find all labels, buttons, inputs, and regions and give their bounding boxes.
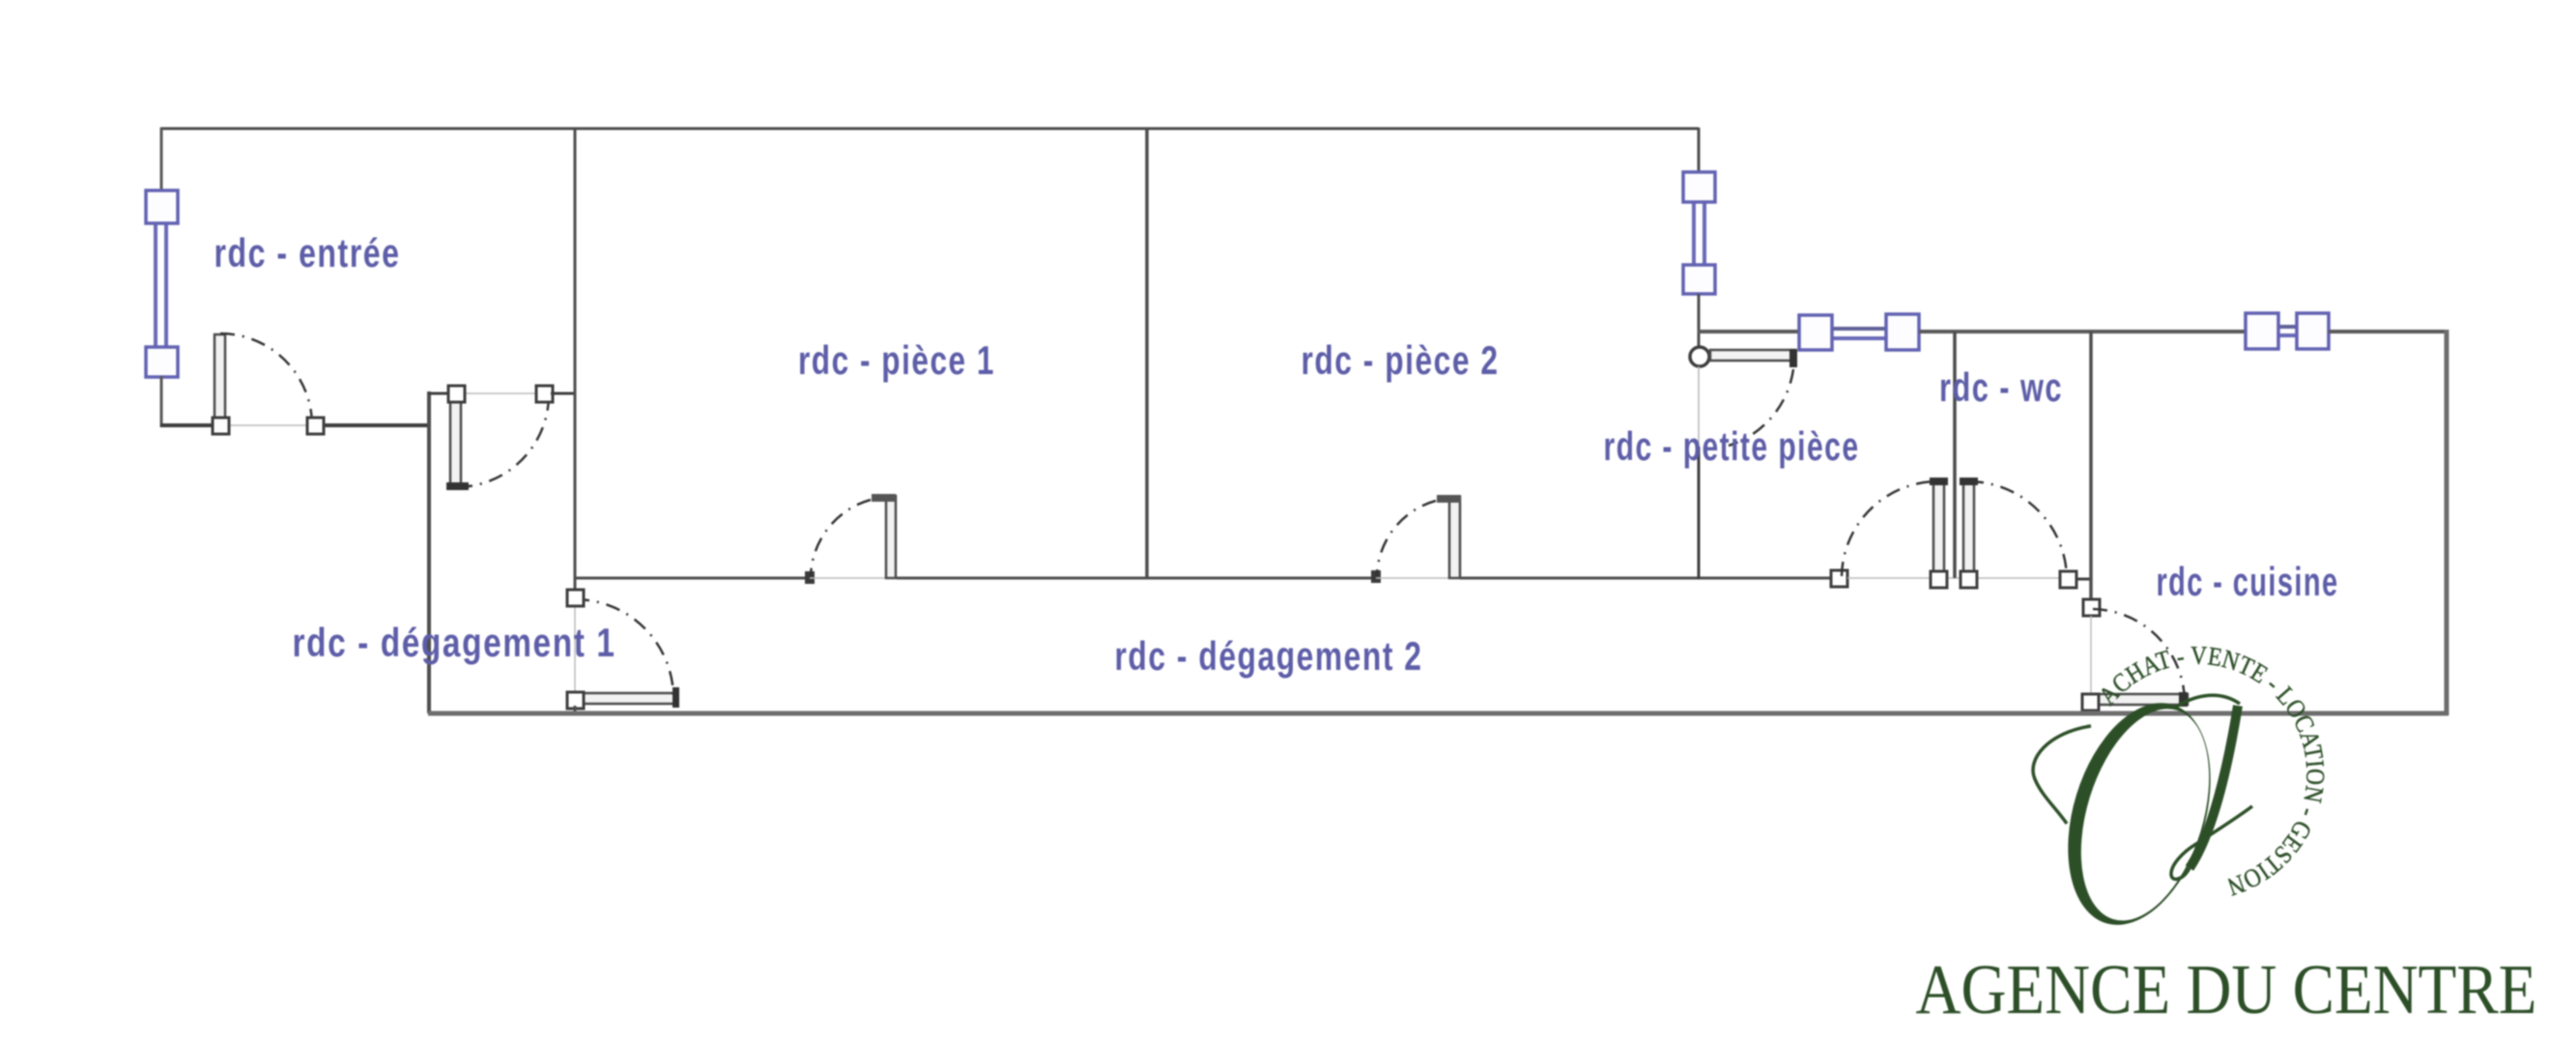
svg-text:rdc - entrée: rdc - entrée bbox=[215, 230, 401, 275]
window W3 square right bbox=[1886, 314, 1919, 350]
window W2 square top bbox=[1683, 172, 1715, 202]
wire wc cuisine top wall segment b bbox=[1919, 330, 2247, 333]
wire right wall bbox=[2445, 330, 2449, 715]
door D7 swing arc bbox=[1842, 481, 1936, 576]
door D2 swing arc bbox=[458, 395, 549, 487]
door D4 swing arc bbox=[811, 500, 871, 576]
window W2 glazing bbox=[1692, 200, 1696, 267]
wire top wall bbox=[160, 128, 1699, 130]
door D9 opening line bbox=[2090, 616, 2092, 693]
door D2 leaf bbox=[450, 396, 461, 485]
wire rooms bottom wall segment a bbox=[574, 577, 806, 580]
wire wc right wall bbox=[2089, 332, 2093, 601]
node D1 hinge bbox=[213, 418, 229, 434]
window W4 square left bbox=[2246, 313, 2278, 349]
door D5 leaf bbox=[1449, 497, 1460, 578]
window W3 square left bbox=[1799, 315, 1832, 350]
logo script glyph ell stem bbox=[2190, 706, 2238, 868]
wire left wall upper segment bbox=[160, 128, 163, 192]
wire rooms bottom wall segment b bbox=[897, 577, 1372, 580]
door D4 leaf bbox=[886, 496, 896, 578]
window W4 square right bbox=[2297, 313, 2329, 349]
svg-text:rdc - cuisine: rdc - cuisine bbox=[2157, 559, 2339, 604]
node D1 latch bbox=[307, 418, 324, 434]
wire degagement1 top wall right bbox=[551, 392, 576, 395]
door D2 opening line bbox=[456, 392, 544, 394]
wire entree bottom wall right bbox=[323, 423, 431, 427]
door D3 leaf bbox=[580, 693, 676, 704]
window W1 glazing bbox=[154, 222, 157, 350]
node D9 hinge bbox=[2082, 694, 2099, 710]
door D8 leaf cap bbox=[1960, 478, 1978, 485]
wire wc cuisine top wall segment c bbox=[2329, 330, 2448, 333]
wire left wall lower segment bbox=[160, 376, 163, 427]
node D4 latch bbox=[805, 571, 815, 584]
wire wc left wall bbox=[1953, 332, 1957, 578]
wire petite piece left wall bbox=[1698, 447, 1701, 579]
wire wc latch link bbox=[2076, 578, 2092, 581]
wire piece2 right wall lower bbox=[1698, 294, 1701, 349]
node D9 top bbox=[2083, 599, 2100, 616]
door D7 leaf cap bbox=[1930, 478, 1948, 485]
node D8 hinge bbox=[1961, 571, 1977, 588]
door D5 leaf cap bbox=[1437, 495, 1461, 503]
node D3 top bbox=[567, 590, 584, 606]
node D2 latch bbox=[536, 386, 553, 402]
wire piece divider wall bbox=[1145, 129, 1149, 579]
logo script glyph big loop bbox=[2043, 685, 2235, 942]
svg-text:AGENCE DU CENTRE: AGENCE DU CENTRE bbox=[1916, 950, 2537, 1029]
wire entree bottom wall left bbox=[160, 423, 214, 427]
wire petite piece left opening line bbox=[1698, 366, 1700, 447]
window W1 square bottom bbox=[146, 347, 178, 377]
door D7 leaf bbox=[1933, 480, 1944, 572]
node D3 hinge bbox=[567, 692, 584, 709]
door D4 leaf cap bbox=[872, 494, 896, 502]
node D2 hinge bbox=[448, 386, 465, 402]
door D3 leaf cap bbox=[673, 687, 679, 708]
door D8 swing arc bbox=[1969, 481, 2067, 576]
wire wc opening line bbox=[1847, 577, 2060, 579]
door D3 swing arc bbox=[575, 599, 673, 698]
window W3 glazing bbox=[1832, 327, 1887, 331]
door D1 leaf bbox=[215, 334, 225, 421]
window W1 square top bbox=[146, 190, 178, 223]
logo script glyph connector bbox=[2176, 695, 2240, 707]
wire piece1 left wall bbox=[574, 129, 577, 599]
wire rooms bottom wall segment c bbox=[1460, 577, 1832, 580]
door D6 circle hinge node bbox=[1690, 347, 1709, 366]
svg-text:rdc - wc: rdc - wc bbox=[1939, 364, 2063, 410]
svg-text:rdc - dégagement 1: rdc - dégagement 1 bbox=[293, 620, 616, 665]
svg-text:rdc - pièce 1: rdc - pièce 1 bbox=[798, 337, 995, 383]
door D9 leaf cap bbox=[2179, 692, 2188, 707]
logo script glyph swash bbox=[2033, 726, 2091, 824]
door D6 swing arc bbox=[1729, 369, 1793, 446]
door D3 opening line bbox=[574, 603, 576, 694]
door D1 swing arc bbox=[220, 333, 312, 425]
door D1 opening line bbox=[220, 424, 315, 426]
door D5 opening line bbox=[1376, 577, 1449, 579]
wire wc cuisine top wall segment a bbox=[1698, 330, 1800, 333]
door D8 leaf bbox=[1963, 480, 1974, 572]
wire piece2 right wall upper bbox=[1698, 128, 1701, 174]
window W4 glazing bbox=[2278, 325, 2298, 329]
door D6 leaf bbox=[1710, 350, 1795, 361]
node D7 latch bbox=[1831, 570, 1847, 587]
door D9 leaf bbox=[2083, 694, 2188, 705]
node D8 latch bbox=[2060, 571, 2076, 588]
wire piece1 left wall stub bbox=[574, 706, 577, 715]
svg-text:rdc - dégagement 2: rdc - dégagement 2 bbox=[1115, 633, 1423, 679]
svg-text:rdc - petite pièce: rdc - petite pièce bbox=[1604, 423, 1860, 469]
logo script glyph ell loop tail bbox=[2171, 806, 2252, 880]
wire degagement1 top wall left bbox=[428, 392, 450, 395]
window W2 square bottom bbox=[1683, 265, 1715, 294]
door D6 leaf cap bbox=[1789, 349, 1797, 367]
wire degagement1 left wall bbox=[427, 391, 431, 713]
node D7 hinge bbox=[1931, 571, 1947, 588]
door D2 leaf cap bbox=[446, 482, 469, 490]
door D5 swing arc bbox=[1377, 501, 1436, 576]
door D9 swing arc bbox=[2093, 609, 2185, 701]
door D4 opening line bbox=[810, 577, 887, 579]
node D5 latch bbox=[1371, 570, 1381, 583]
wire bottom wall bbox=[428, 711, 2448, 716]
svg-text:rdc - pièce 2: rdc - pièce 2 bbox=[1302, 337, 1500, 383]
